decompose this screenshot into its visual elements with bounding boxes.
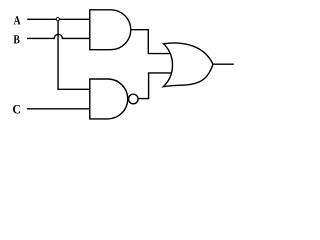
wire tap from node A down to NAND input 1 bbox=[58, 19, 90, 89]
wire C to NAND input 2 bbox=[27, 108, 90, 110]
node junction on A (open circle) bbox=[56, 18, 59, 21]
AND gate U1 bbox=[90, 10, 131, 50]
NAND gate U2 inverter bubble bbox=[129, 94, 139, 104]
wire A to AND input 1 bbox=[27, 18, 90, 20]
wire B to AND input 2 (with hop over vertical tap) bbox=[27, 34, 90, 38]
OR gate U3 bbox=[163, 43, 213, 87]
input label C bbox=[13, 105, 20, 113]
wire AND output to OR input 1 bbox=[131, 30, 171, 54]
input label B bbox=[14, 35, 20, 43]
NAND gate U2 body bbox=[90, 79, 128, 119]
wire OR output bbox=[213, 63, 234, 65]
wire NAND output to OR input 2 bbox=[138, 73, 171, 99]
input label A bbox=[14, 16, 21, 24]
